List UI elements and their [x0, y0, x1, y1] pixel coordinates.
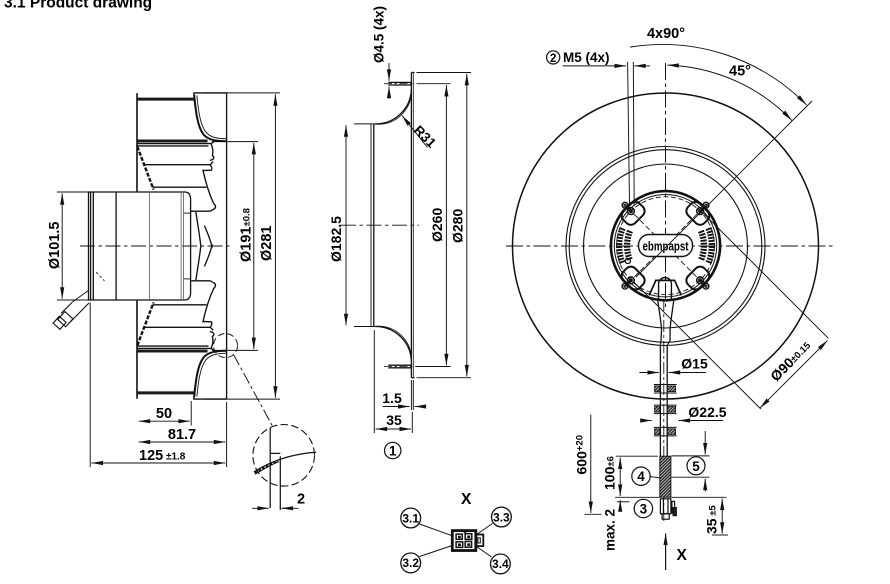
- dim 100+-6: [616, 455, 658, 457]
- balloon 4 + leader: [632, 467, 660, 485]
- svg-text:1.5: 1.5: [382, 390, 402, 406]
- vertical centerline: [665, 63, 667, 310]
- svg-text:Ø4.5 (4x): Ø4.5 (4x): [372, 6, 387, 63]
- blade shelf 1 top: [137, 141, 215, 143]
- hub diagonal dashed cross: [634, 214, 697, 277]
- blade inner curve bottom: [196, 246, 201, 280]
- ring top corner edge: [411, 72, 414, 74]
- svg-text:4x90°: 4x90°: [647, 26, 685, 42]
- svg-text:M5 (4x): M5 (4x): [563, 50, 610, 65]
- detail small circle: [214, 334, 238, 358]
- blade root curve top: [204, 226, 212, 248]
- svg-text:2: 2: [297, 492, 305, 508]
- ring bottom corner edge: [411, 377, 414, 379]
- 45 arc: [667, 65, 792, 120]
- balloon 5: [687, 457, 705, 475]
- balloon 3.4: [491, 554, 511, 574]
- backplate top edge: [194, 92, 227, 94]
- cable ties: [654, 385, 677, 394]
- balloon 2 + M5 text: [547, 51, 560, 64]
- M5 ext lines down to hole: [628, 62, 630, 206]
- cable centerline: [663, 299, 665, 521]
- blade ring band top (hatched): [137, 139, 208, 142]
- blade shelf 4 bottom (hub): [191, 280, 211, 282]
- hub small hole: [625, 258, 630, 263]
- throat wall double line: [370, 124, 372, 326]
- R31 leader: [402, 116, 428, 148]
- dim Ø182.5: [354, 123, 374, 125]
- motor panel line: [115, 192, 117, 300]
- dim 50: [190, 401, 192, 426]
- backplate bottom edge: [194, 398, 227, 400]
- inlet cone edge bottom (hatched diagonal): [137, 302, 153, 345]
- svg-text:5: 5: [692, 459, 700, 474]
- svg-text:35: 35: [386, 412, 402, 428]
- side latch: [476, 535, 483, 547]
- dim Ø4.5 leader arrows: [388, 63, 390, 81]
- dim max2: [619, 500, 621, 510]
- motor band thin: [149, 192, 151, 300]
- dim 600+20: [590, 415, 592, 513]
- inlet ring circle outer: [566, 147, 765, 346]
- centerline middle view: [341, 224, 419, 226]
- dim 81.7: [139, 441, 226, 443]
- detail big circle: [253, 425, 315, 487]
- svg-text:3.1 Product drawing: 3.1 Product drawing: [4, 0, 152, 12]
- motor hub step lines: [184, 212, 191, 214]
- inlet ring circle inner: [569, 150, 762, 343]
- svg-text:2: 2: [550, 53, 556, 65]
- blade ring band bottom (hatched): [137, 350, 208, 353]
- braided sleeve: [660, 456, 671, 497]
- dim 35: [373, 330, 375, 433]
- dim O22.5: [641, 420, 652, 422]
- dim O15: [639, 372, 659, 374]
- balloon 3.1: [401, 508, 421, 528]
- cable gland at hub: [649, 277, 681, 521]
- svg-text:3: 3: [640, 502, 648, 517]
- svg-text:1: 1: [389, 444, 397, 459]
- blade shelf 4 top (hub): [191, 210, 211, 212]
- blade shelf 1b bottom: [137, 345, 209, 347]
- dim 35+-5: [672, 496, 727, 498]
- svg-text:3.3: 3.3: [493, 510, 510, 524]
- detail wall lines: [254, 428, 316, 511]
- hub screws (M5 4x): [622, 202, 709, 289]
- svg-text:Ø280: Ø280: [450, 209, 466, 243]
- dim 125: [89, 303, 91, 468]
- svg-text:3.1: 3.1: [402, 511, 419, 525]
- blade shelf 2 bottom: [144, 327, 214, 330]
- hole centerline top: [384, 83, 414, 85]
- O90 dim line: [760, 340, 828, 408]
- inlet edge line: [136, 93, 138, 192]
- blade root curve bottom: [204, 244, 212, 266]
- ebmpapst logo plate: [639, 235, 693, 257]
- impeller hub circle: [584, 164, 748, 328]
- top cover band (hatched): [137, 98, 194, 101]
- blade tooth 1 top: [210, 144, 214, 161]
- svg-text:Ø281: Ø281: [259, 226, 275, 261]
- svg-text:50: 50: [156, 406, 172, 422]
- motor rear double band: [180, 192, 182, 300]
- svg-text:Ø101.5: Ø101.5: [47, 222, 63, 270]
- dim Ø191: [212, 141, 258, 143]
- svg-text:max. 2: max. 2: [603, 509, 618, 551]
- dim Ø101.5: [57, 191, 89, 193]
- blade shelf 1b top: [137, 145, 209, 147]
- svg-text:Ø22.5: Ø22.5: [688, 404, 726, 420]
- blade curve 1 bottom: [203, 281, 216, 327]
- bottom cover band (hatched): [137, 391, 194, 394]
- dim balloon5 span: [672, 455, 710, 457]
- svg-text:4: 4: [637, 469, 645, 484]
- motor face double line: [90, 192, 92, 300]
- svg-text:Ø191±0.8: Ø191±0.8: [239, 208, 255, 262]
- R31 bell arc top: [374, 89, 411, 124]
- detail leader dashline: [234, 355, 274, 429]
- motor hub rim inner: [614, 195, 716, 297]
- O90 ext line from NE hole: [704, 213, 829, 338]
- cable duct tip connector: [53, 316, 66, 329]
- blade shelf 3 top: [153, 186, 207, 188]
- scroll curve bottom: [194, 351, 226, 397]
- svg-text:X: X: [461, 491, 472, 508]
- 45deg radial line: [636, 101, 812, 277]
- dim Ø260: [417, 83, 451, 85]
- svg-text:3.2: 3.2: [402, 556, 419, 570]
- svg-text:3.4: 3.4: [492, 557, 509, 571]
- balloon 1: [385, 442, 401, 458]
- dim 2 arrows: [252, 507, 269, 509]
- mounting plane line: [226, 93, 228, 399]
- M5 dim arrows: [563, 65, 627, 67]
- blade tooth 1 bottom: [210, 332, 214, 349]
- X arrow: [665, 534, 667, 571]
- svg-text:X: X: [677, 547, 688, 564]
- cable down to braid: [659, 345, 661, 456]
- centerline left view: [80, 245, 232, 247]
- scroll curve top: [194, 95, 226, 141]
- flange hole bottom: [388, 364, 411, 366]
- inlet cone edge top (hatched diagonal): [137, 147, 153, 190]
- blade inner curve top: [196, 212, 201, 246]
- cable duct hidden diagonal: [72, 290, 89, 302]
- dim Ø280: [417, 72, 472, 74]
- outer housing circle: [513, 93, 819, 399]
- blade shelf 1 bottom: [137, 348, 215, 350]
- balloon 3.3: [492, 507, 512, 527]
- connector body: [401, 507, 511, 574]
- hole centerline bottom: [384, 366, 425, 368]
- flange hole top: [388, 81, 411, 83]
- connector at cable end: [660, 499, 676, 519]
- leader lines: [420, 524, 493, 558]
- dim 1.5: [383, 406, 410, 408]
- svg-text:81.7: 81.7: [168, 427, 196, 443]
- hub screw pads: [619, 199, 712, 292]
- svg-text:Ø15: Ø15: [681, 356, 708, 372]
- svg-text:Ø260: Ø260: [429, 208, 445, 242]
- horizontal centerline: [506, 245, 833, 247]
- svg-text:Ø182.5: Ø182.5: [328, 216, 344, 262]
- R31 bell arc bottom: [374, 326, 411, 361]
- blade shelf 3 bottom: [153, 304, 207, 306]
- svg-text:45°: 45°: [729, 64, 751, 80]
- 4x90 arc: [630, 44, 807, 104]
- ring outer wall double line: [410, 73, 412, 378]
- dim Ø281: [205, 92, 280, 94]
- bolt circle dashed: [617, 197, 715, 295]
- blade shelf 2 top: [144, 162, 214, 165]
- pins: [456, 534, 472, 548]
- O90 ext line from SW hole: [634, 283, 760, 409]
- hub rating text bands: [619, 228, 712, 263]
- blade curve 1 top: [203, 165, 216, 211]
- cable duct 45deg: [61, 303, 89, 323]
- motor body: [89, 192, 191, 300]
- balloon 3: [634, 499, 652, 517]
- balloon 3.2: [401, 553, 421, 573]
- motor hub rim thick: [611, 191, 720, 300]
- motor dashed tick: [96, 272, 105, 281]
- svg-text:ebmpapst: ebmpapst: [643, 240, 690, 254]
- cable duct end cap: [58, 312, 73, 327]
